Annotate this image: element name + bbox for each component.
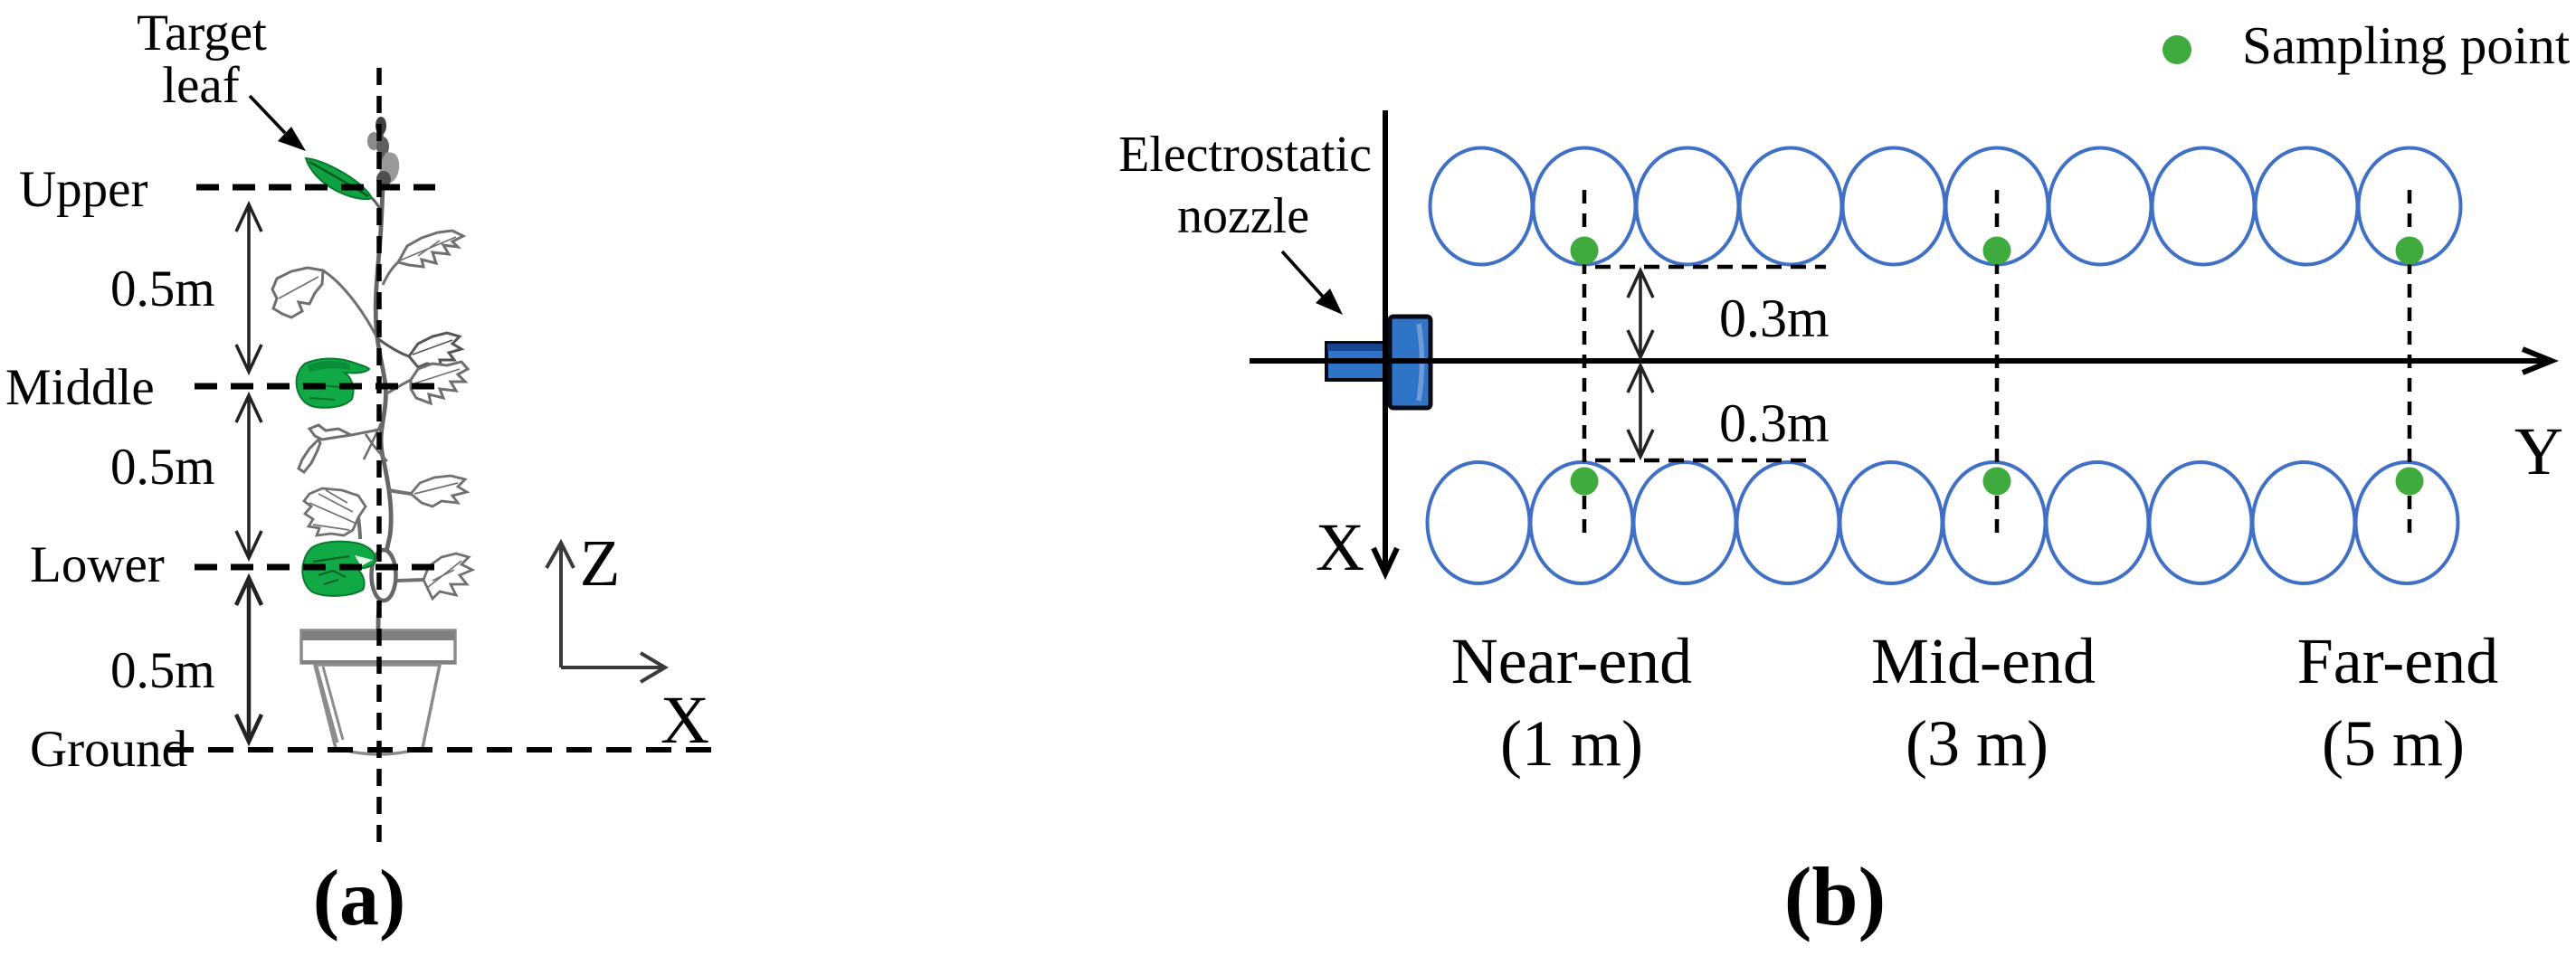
X axis vertical bbox=[1383, 110, 1388, 568]
top row circles bbox=[1431, 148, 2461, 265]
svg-text:0.5m: 0.5m bbox=[110, 260, 215, 317]
left big gray leaf L7 bbox=[304, 488, 366, 539]
svg-text:Sampling point: Sampling point bbox=[2242, 15, 2571, 75]
svg-text:Z: Z bbox=[580, 526, 621, 600]
svg-text:Near-end: Near-end bbox=[1451, 625, 1692, 697]
svg-text:0.5m: 0.5m bbox=[110, 439, 215, 496]
dashed horizontal top dim bbox=[1595, 265, 1826, 270]
svg-text:X: X bbox=[661, 683, 709, 758]
dim arrow 0.3m top bbox=[1628, 270, 1653, 357]
svg-text:(3 m): (3 m) bbox=[1906, 707, 2048, 780]
Ground dashed line bbox=[168, 747, 723, 752]
dimension arrow Middle-Lower bbox=[236, 395, 261, 558]
upper-right gray leaf L1 bbox=[383, 231, 463, 285]
svg-text:(b): (b) bbox=[1784, 850, 1886, 942]
svg-text:Lower: Lower bbox=[30, 536, 165, 593]
dim arrow 0.3m bottom bbox=[1628, 365, 1653, 457]
svg-text:leaf: leaf bbox=[162, 57, 239, 114]
svg-text:Target: Target bbox=[137, 5, 267, 62]
Z-X axis panel a bbox=[547, 543, 665, 682]
target-leaf arrow bbox=[250, 96, 306, 151]
dashed horizontal bottom dim bbox=[1595, 459, 1813, 463]
sampling dots top row bbox=[1571, 237, 2424, 265]
top buds bbox=[367, 117, 399, 187]
svg-text:(1 m): (1 m) bbox=[1500, 707, 1643, 780]
legend dot bbox=[2163, 35, 2191, 64]
stem bbox=[375, 119, 391, 552]
svg-text:0.3m: 0.3m bbox=[1719, 289, 1830, 348]
dashed vertical near-end bbox=[1583, 190, 1587, 537]
svg-text:Upper: Upper bbox=[19, 161, 147, 218]
lower-right gray leaf L8 bbox=[397, 554, 472, 599]
mid-right small leaf L6 bbox=[389, 476, 467, 506]
bottom row circles bbox=[1428, 462, 2458, 583]
dimension arrow Lower-Ground bbox=[236, 578, 261, 742]
stem loop bbox=[372, 550, 396, 601]
svg-text:Mid-end: Mid-end bbox=[1871, 625, 2096, 697]
svg-text:Middle: Middle bbox=[5, 359, 155, 416]
middle-right jagged leaf L4 bbox=[385, 362, 468, 403]
pot body bbox=[315, 665, 440, 754]
green leaf upper bbox=[306, 158, 372, 199]
nozzle arrow bbox=[1282, 251, 1324, 298]
sampling dots bottom row bbox=[1571, 468, 2424, 496]
svg-text:X: X bbox=[1316, 510, 1364, 585]
pot diagonal lines bbox=[317, 667, 343, 743]
dashed vertical mid-end bbox=[1995, 190, 2000, 535]
green leaf lower bbox=[302, 542, 375, 596]
svg-text:Electrostatic: Electrostatic bbox=[1118, 127, 1372, 183]
Upper dashed line bbox=[196, 185, 435, 191]
svg-text:nozzle: nozzle bbox=[1177, 188, 1309, 244]
left drooping gray leaf L2 bbox=[272, 268, 377, 338]
svg-text:(5 m): (5 m) bbox=[2322, 707, 2465, 780]
dimension arrow Upper-Middle bbox=[236, 204, 261, 372]
crossing twig bbox=[364, 423, 387, 461]
svg-text:Ground: Ground bbox=[30, 721, 187, 778]
nozzle bbox=[1326, 317, 1431, 408]
svg-text:Y: Y bbox=[2514, 414, 2563, 489]
svg-text:0.3m: 0.3m bbox=[1719, 393, 1830, 453]
Lower dashed line bbox=[195, 564, 435, 571]
plant axis dashed vertical bbox=[376, 68, 382, 842]
small left sprout L5 bbox=[299, 425, 383, 472]
pot rim bbox=[301, 630, 455, 663]
green leaf middle bbox=[297, 358, 369, 407]
Middle dashed line bbox=[195, 383, 435, 390]
dashed vertical far-end bbox=[2408, 190, 2412, 537]
Y axis horizontal bbox=[1250, 358, 2544, 364]
right-down gray leaf L3 bbox=[377, 333, 461, 367]
svg-text:(a): (a) bbox=[313, 855, 406, 942]
svg-text:0.5m: 0.5m bbox=[110, 642, 215, 699]
svg-text:Far-end: Far-end bbox=[2297, 625, 2498, 697]
